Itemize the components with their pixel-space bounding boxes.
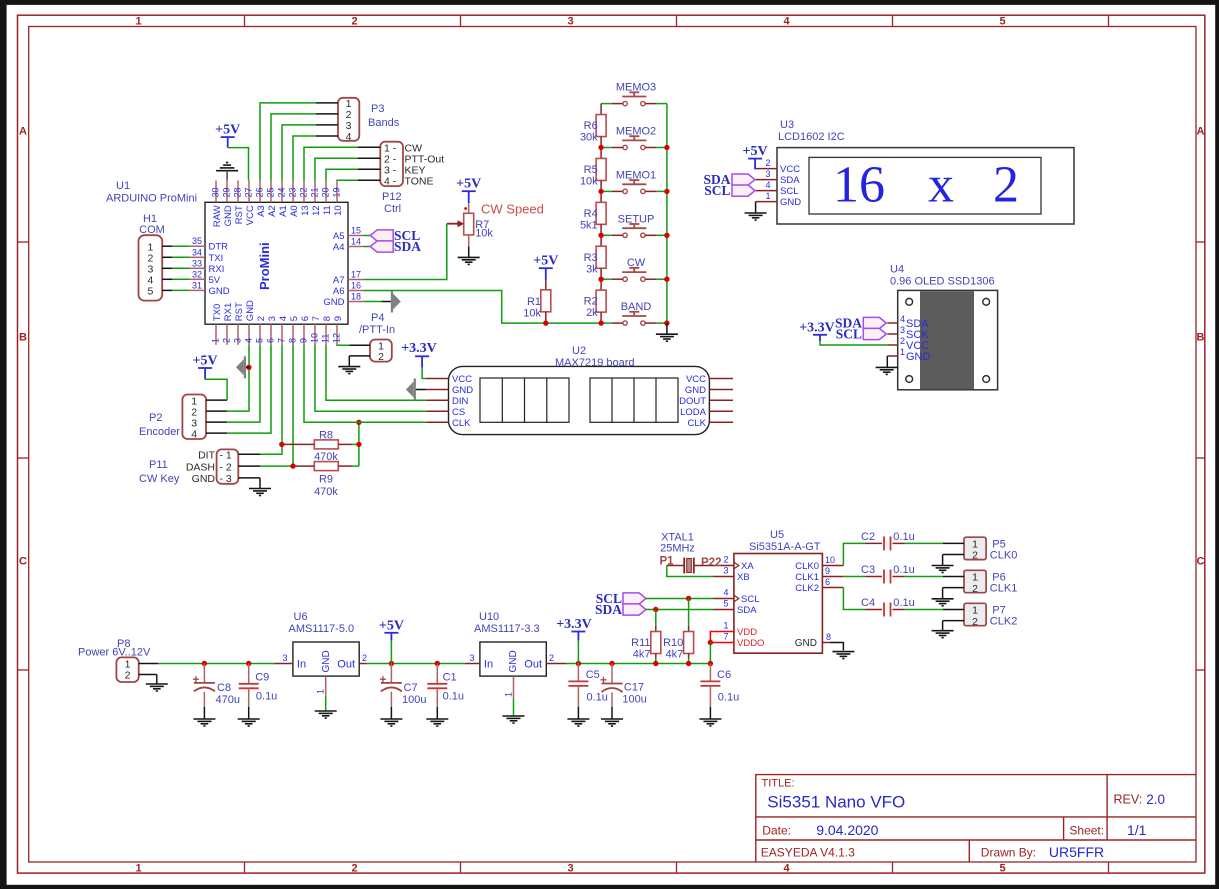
svg-text:A4: A4	[333, 242, 345, 253]
net SDA flag U3	[703, 172, 755, 187]
power +5V P2	[193, 354, 218, 379]
svg-text:COM: COM	[139, 224, 165, 236]
svg-text:1: 1	[723, 621, 728, 631]
svg-text:4: 4	[783, 862, 790, 874]
svg-text:Si5351 Nano VFO: Si5351 Nano VFO	[767, 793, 905, 812]
junction C8	[202, 661, 207, 666]
wire U10 pin1 to ground	[513, 699, 515, 716]
port arrow P2 GND	[236, 356, 246, 378]
port arrow GND18	[391, 291, 401, 313]
U1 bottom pins 1-12	[211, 300, 344, 345]
svg-text:P4: P4	[371, 312, 384, 324]
ground C8	[193, 719, 215, 726]
svg-text:4: 4	[244, 338, 254, 343]
U5 pin CLK2	[795, 577, 843, 594]
wire C1 to ground	[436, 707, 438, 719]
ground GND pin29 inverted	[216, 163, 238, 181]
svg-text:6: 6	[266, 338, 276, 343]
ground U3	[745, 213, 767, 220]
wire VDD VDDO red	[710, 632, 734, 643]
svg-text:8: 8	[288, 338, 298, 343]
switch MEMO1	[612, 169, 657, 193]
wire P11-3 to ground	[259, 478, 261, 489]
wire +5V to rail	[390, 641, 392, 664]
svg-text:1: 1	[316, 689, 326, 694]
U5 pin VDD	[723, 621, 757, 638]
svg-text:P3: P3	[371, 103, 384, 115]
ic U5 Si5351A body	[734, 554, 823, 654]
svg-text:2.0: 2.0	[1146, 792, 1165, 807]
svg-text:R8: R8	[319, 429, 333, 441]
svg-text:VCC: VCC	[452, 374, 472, 385]
wire GND8 to ground	[830, 643, 844, 651]
svg-text:31: 31	[192, 280, 202, 290]
svg-text:16: 16	[833, 157, 885, 214]
junction R9 left	[290, 463, 295, 468]
switch CW	[612, 257, 657, 281]
svg-text:A6: A6	[333, 286, 345, 297]
U5 pin CLK0	[795, 555, 843, 572]
resistor R2	[584, 279, 606, 323]
U5 pin CLK1	[795, 566, 843, 583]
svg-text:30: 30	[211, 187, 221, 197]
capacitor C3	[861, 564, 915, 584]
svg-text:C5: C5	[586, 669, 600, 681]
svg-text:29: 29	[222, 187, 232, 197]
svg-text:3: 3	[723, 566, 728, 576]
wire C4 to P7	[905, 609, 943, 611]
wire XTAL right to XA	[694, 565, 714, 567]
svg-text:ProMini: ProMini	[257, 242, 272, 290]
svg-text:5: 5	[999, 16, 1005, 28]
svg-text:5: 5	[255, 338, 265, 343]
capacitor C2	[861, 531, 915, 550]
wire CLK1 to C3	[843, 576, 865, 578]
svg-text:GND: GND	[323, 297, 344, 308]
U5 pin GND8	[795, 632, 831, 649]
power +3.3V U2	[401, 341, 437, 368]
svg-text:R10: R10	[663, 637, 683, 649]
svg-text:DOUT: DOUT	[679, 396, 706, 407]
svg-text:17: 17	[351, 270, 361, 280]
svg-text:A5: A5	[333, 231, 345, 242]
svg-text:2: 2	[972, 583, 978, 595]
wire +3.3V to U2 VCC	[422, 368, 426, 379]
svg-text:2k: 2k	[586, 307, 598, 319]
svg-text:+5V: +5V	[743, 144, 768, 159]
wire C5 to ground	[577, 707, 579, 719]
power +3.3V U4	[799, 321, 835, 342]
svg-text:470u: 470u	[216, 694, 240, 706]
svg-text:25: 25	[266, 187, 276, 197]
ground ladder	[656, 334, 678, 341]
capacitor C9	[239, 664, 278, 707]
svg-text:R3: R3	[584, 252, 598, 264]
capacitor C7	[380, 664, 427, 707]
svg-text:2: 2	[362, 653, 367, 663]
connector P6 CLK1	[943, 570, 1018, 595]
svg-text:VCC: VCC	[686, 374, 706, 385]
wire BAND left	[601, 322, 612, 324]
junction ladder	[598, 233, 603, 238]
wire C8 to ground	[203, 707, 205, 719]
svg-text:4 -: 4 -	[384, 176, 397, 188]
wire R8 R9 right rail	[352, 422, 359, 466]
wire A6 to ladder	[364, 291, 601, 324]
svg-text:In: In	[297, 659, 306, 671]
svg-text:CLK: CLK	[452, 418, 471, 429]
wire A1 to P3-3	[282, 125, 316, 181]
svg-text:U10: U10	[479, 611, 499, 623]
label U4	[890, 264, 995, 288]
U10 pin2	[546, 653, 566, 664]
svg-text:3: 3	[233, 338, 243, 343]
svg-text:R5: R5	[584, 164, 598, 176]
svg-text:+3.3V: +3.3V	[799, 321, 835, 336]
svg-text:x: x	[928, 157, 954, 214]
svg-text:C9: C9	[255, 672, 269, 684]
svg-text:U3: U3	[780, 119, 794, 131]
junction R8 left	[279, 442, 284, 447]
junction ladder	[598, 277, 603, 282]
svg-text:VDDO: VDDO	[737, 638, 764, 649]
svg-text:3: 3	[267, 316, 278, 321]
switch BAND	[612, 301, 657, 325]
U10 pin1	[504, 676, 514, 699]
ground P7	[932, 631, 954, 638]
svg-text:C17: C17	[624, 682, 644, 694]
power +3.3V rail	[556, 617, 592, 641]
svg-text:1/1: 1/1	[1127, 822, 1147, 838]
power +5V rail	[379, 618, 404, 641]
power +5V R1	[533, 254, 558, 281]
ground C5	[567, 719, 589, 726]
junction SCL R10	[686, 596, 691, 601]
svg-text:A0: A0	[289, 205, 300, 217]
switch SETUP	[612, 213, 657, 237]
U1 left pins	[189, 236, 230, 297]
svg-text:RST: RST	[234, 205, 245, 224]
potentiometer R7	[447, 203, 494, 246]
svg-text:6: 6	[825, 577, 830, 587]
svg-text:10k: 10k	[523, 308, 541, 320]
svg-text:A2: A2	[267, 205, 278, 217]
svg-text:8: 8	[322, 316, 333, 321]
svg-text:2: 2	[723, 555, 728, 565]
svg-text:3: 3	[765, 169, 770, 179]
wire A0 to P3-4	[293, 136, 316, 181]
connector P11 CW Key	[139, 449, 260, 485]
svg-text:5V: 5V	[209, 275, 221, 286]
svg-text:21: 21	[310, 187, 320, 197]
junction ladder	[598, 189, 603, 194]
svg-text:GND: GND	[209, 286, 230, 297]
svg-text:+5V: +5V	[379, 618, 404, 633]
wire U3 GND to ground	[755, 202, 757, 213]
svg-text:+3.3V: +3.3V	[556, 617, 592, 632]
svg-text:VCC: VCC	[780, 164, 800, 175]
svg-text:CW Key: CW Key	[139, 473, 180, 485]
ground U10	[503, 716, 525, 723]
svg-text:3k: 3k	[586, 263, 598, 275]
svg-text:C1: C1	[443, 672, 457, 684]
svg-text:GND: GND	[223, 205, 234, 226]
junction rail BAND	[664, 320, 669, 325]
svg-text:VCC: VCC	[245, 205, 256, 225]
U4 pins	[887, 314, 930, 363]
wire C6 to ground	[709, 707, 711, 719]
svg-text:4: 4	[191, 428, 197, 440]
svg-text:P12: P12	[382, 191, 402, 203]
junction R10 rail	[686, 661, 691, 666]
svg-text:9.04.2020: 9.04.2020	[816, 822, 878, 838]
U10 pin3	[465, 653, 480, 664]
svg-text:3: 3	[567, 16, 573, 28]
junction rail	[664, 145, 669, 150]
net SCL flag U1	[364, 228, 420, 243]
svg-text:0.1u: 0.1u	[718, 692, 739, 704]
wire pin8 to P11-2	[260, 345, 293, 466]
resistor R5	[580, 148, 606, 192]
wire C3 to P6	[905, 576, 943, 578]
svg-text:2: 2	[351, 16, 357, 28]
connector P8 Power	[78, 638, 158, 682]
svg-text:XA: XA	[741, 561, 754, 572]
svg-text:7: 7	[311, 316, 322, 321]
svg-text:TXI: TXI	[209, 253, 224, 264]
junction rail R8	[356, 442, 361, 447]
svg-text:GND: GND	[795, 638, 817, 649]
svg-text:EASYEDA V4.1.3: EASYEDA V4.1.3	[761, 846, 855, 860]
svg-text:CLK: CLK	[688, 418, 707, 429]
svg-text:In: In	[484, 659, 493, 671]
svg-text:GND: GND	[685, 385, 706, 396]
label U5	[749, 529, 821, 553]
resistor R1	[523, 280, 551, 323]
ground C7	[380, 719, 402, 726]
U6 pin3	[275, 653, 293, 664]
svg-text:2: 2	[765, 158, 770, 168]
switch MEMO3	[612, 82, 657, 106]
U5 pin XA	[714, 555, 755, 572]
junction ladder BAND	[598, 320, 603, 325]
net SDA flag U1	[364, 239, 421, 254]
svg-text:0.1u: 0.1u	[893, 564, 914, 576]
label U6	[289, 611, 355, 635]
wire C17 to ground	[611, 707, 613, 719]
wire SCL to U5	[646, 598, 714, 600]
ground U4	[876, 367, 898, 374]
svg-text:AMS1117-3.3: AMS1117-3.3	[474, 623, 540, 635]
junction rail CLK	[356, 420, 361, 425]
svg-text:10: 10	[333, 205, 344, 216]
wire pin10 to P12-4	[337, 179, 358, 181]
connector P2 Encoder	[139, 395, 227, 441]
connector H1 COM	[139, 213, 173, 301]
ground C1	[426, 719, 448, 726]
svg-text:1: 1	[765, 191, 770, 201]
crystal XTAL1	[660, 532, 722, 574]
ground P5	[932, 566, 954, 573]
display U3 LCD1602 body	[777, 148, 1074, 224]
junction +5V rail	[389, 661, 394, 666]
junction VDDO	[708, 640, 713, 645]
resistor R4	[580, 191, 606, 235]
svg-text:4: 4	[723, 588, 728, 598]
svg-text:GND: GND	[192, 473, 216, 485]
svg-text:SDA: SDA	[595, 602, 622, 617]
junction rail	[664, 233, 669, 238]
svg-text:5: 5	[147, 286, 153, 298]
wire rail U10 to U5	[566, 663, 710, 665]
svg-text:14: 14	[351, 237, 361, 247]
svg-text:Power 6V..12V: Power 6V..12V	[78, 647, 151, 659]
wire MEMO1 left	[601, 190, 612, 192]
wire U6 pin1 to ground	[325, 696, 327, 711]
svg-text:TITLE:: TITLE:	[762, 778, 795, 790]
wire GND18 to port	[364, 301, 391, 303]
svg-text:1: 1	[136, 862, 142, 874]
svg-text:24: 24	[277, 187, 287, 197]
wire rail to VDDO	[709, 643, 711, 664]
svg-text:Encoder: Encoder	[139, 426, 180, 438]
svg-text:R6: R6	[584, 120, 598, 132]
label U2	[555, 345, 635, 369]
svg-text:4k7: 4k7	[633, 649, 651, 661]
wire GND4 to P2-2	[227, 345, 249, 411]
svg-text:10: 10	[825, 555, 835, 565]
svg-text:23: 23	[288, 187, 298, 197]
svg-text:0.1u: 0.1u	[587, 692, 608, 704]
U1 top pins 30-19	[211, 181, 344, 228]
wire rail U6 to U10	[367, 663, 465, 665]
junction rail	[664, 189, 669, 194]
svg-text:3: 3	[469, 653, 474, 663]
ground P11	[249, 489, 271, 496]
svg-text:- 3: - 3	[220, 473, 232, 485]
wire XTAL left to XB	[667, 566, 714, 577]
wire P8-2 to ground	[156, 675, 158, 685]
junction rail	[664, 277, 669, 282]
junction C9	[246, 661, 251, 666]
svg-text:20: 20	[321, 187, 331, 197]
junction +3.3V rail	[576, 661, 581, 666]
svg-text:U5: U5	[770, 529, 784, 541]
svg-text:SDA: SDA	[780, 175, 800, 186]
svg-text:CLK2: CLK2	[795, 583, 819, 594]
svg-text:34: 34	[192, 247, 202, 257]
svg-text:12: 12	[311, 205, 322, 216]
U2 right pins	[679, 374, 733, 429]
svg-text:13: 13	[300, 205, 311, 216]
svg-text:GND: GND	[245, 300, 256, 321]
svg-text:10: 10	[310, 333, 320, 343]
svg-text:28: 28	[233, 187, 243, 197]
regulator U6 body	[293, 642, 359, 676]
svg-text:TX0: TX0	[212, 304, 223, 321]
module U2 MAX7219 body	[449, 366, 710, 434]
label U1	[106, 180, 197, 205]
label U10	[474, 611, 540, 635]
svg-text:CLK1: CLK1	[795, 572, 819, 583]
wire CLK0 to C2	[843, 543, 865, 565]
svg-text:2: 2	[972, 616, 978, 628]
wire P7-2 to ground	[942, 621, 944, 631]
svg-text:GND: GND	[906, 351, 931, 363]
svg-text:4: 4	[765, 180, 770, 190]
svg-text:100u: 100u	[622, 694, 646, 706]
svg-text:0.1u: 0.1u	[443, 691, 464, 703]
svg-text:A: A	[19, 126, 27, 138]
svg-text:2: 2	[549, 653, 554, 663]
resistor R8	[282, 429, 352, 463]
svg-text:CW Speed: CW Speed	[481, 202, 544, 217]
svg-text:8: 8	[826, 632, 831, 642]
svg-text:22: 22	[299, 187, 309, 197]
svg-text:UR5FFR: UR5FFR	[1049, 844, 1104, 860]
svg-text:11: 11	[322, 205, 333, 215]
svg-text:CLK0: CLK0	[795, 561, 819, 572]
svg-text:0.1u: 0.1u	[256, 691, 277, 703]
svg-text:Ctrl: Ctrl	[384, 203, 401, 215]
svg-text:2: 2	[256, 316, 267, 321]
svg-text:+5V: +5V	[533, 254, 558, 269]
wire MEMO2 right	[657, 147, 667, 149]
wire C2 to P5	[905, 542, 943, 544]
wire ladder right rail	[666, 104, 668, 324]
svg-text:Bands: Bands	[368, 117, 400, 129]
svg-text:0.1u: 0.1u	[893, 597, 914, 609]
title block	[756, 775, 1196, 862]
wire MEMO2 left	[601, 147, 612, 149]
svg-text:C4: C4	[861, 597, 875, 609]
svg-text:CLK1: CLK1	[990, 583, 1018, 595]
svg-text:- 1: - 1	[220, 450, 232, 462]
svg-text:4: 4	[783, 16, 790, 28]
svg-text:RST: RST	[234, 302, 245, 321]
wire BAND right	[657, 322, 667, 324]
wire C7 to ground	[390, 707, 392, 719]
U2 left pins	[426, 374, 473, 429]
junction GND4 port tap	[246, 365, 251, 370]
svg-text:R2: R2	[584, 296, 598, 308]
svg-text:A7: A7	[333, 275, 345, 286]
capacitor C8	[193, 664, 240, 707]
svg-text:35: 35	[192, 236, 202, 246]
resistor R6	[580, 104, 606, 148]
svg-text:1: 1	[504, 692, 514, 697]
wire P4-2 to ground	[348, 356, 350, 367]
svg-text:2: 2	[993, 157, 1019, 214]
capacitor C1	[427, 664, 464, 707]
svg-text:R9: R9	[319, 474, 333, 486]
svg-text:0.96 OLED SSD1306: 0.96 OLED SSD1306	[890, 276, 995, 288]
wire pin5 to P2-3	[227, 345, 260, 422]
svg-text:26: 26	[255, 187, 265, 197]
svg-text:C8: C8	[217, 682, 231, 694]
svg-text:AMS1117-5.0: AMS1117-5.0	[289, 623, 355, 635]
svg-text:C6: C6	[717, 669, 731, 681]
svg-text:P11: P11	[149, 459, 168, 471]
svg-text:10k: 10k	[580, 175, 598, 187]
resistor R11	[631, 610, 661, 664]
wire MEMO3 left	[601, 103, 612, 105]
wire port to U2 GND	[416, 389, 426, 391]
net SCL flag U5	[596, 591, 646, 606]
svg-text:32: 32	[192, 269, 202, 279]
wire pin11b to U2 DIN	[326, 345, 426, 401]
svg-text:16: 16	[351, 281, 361, 291]
